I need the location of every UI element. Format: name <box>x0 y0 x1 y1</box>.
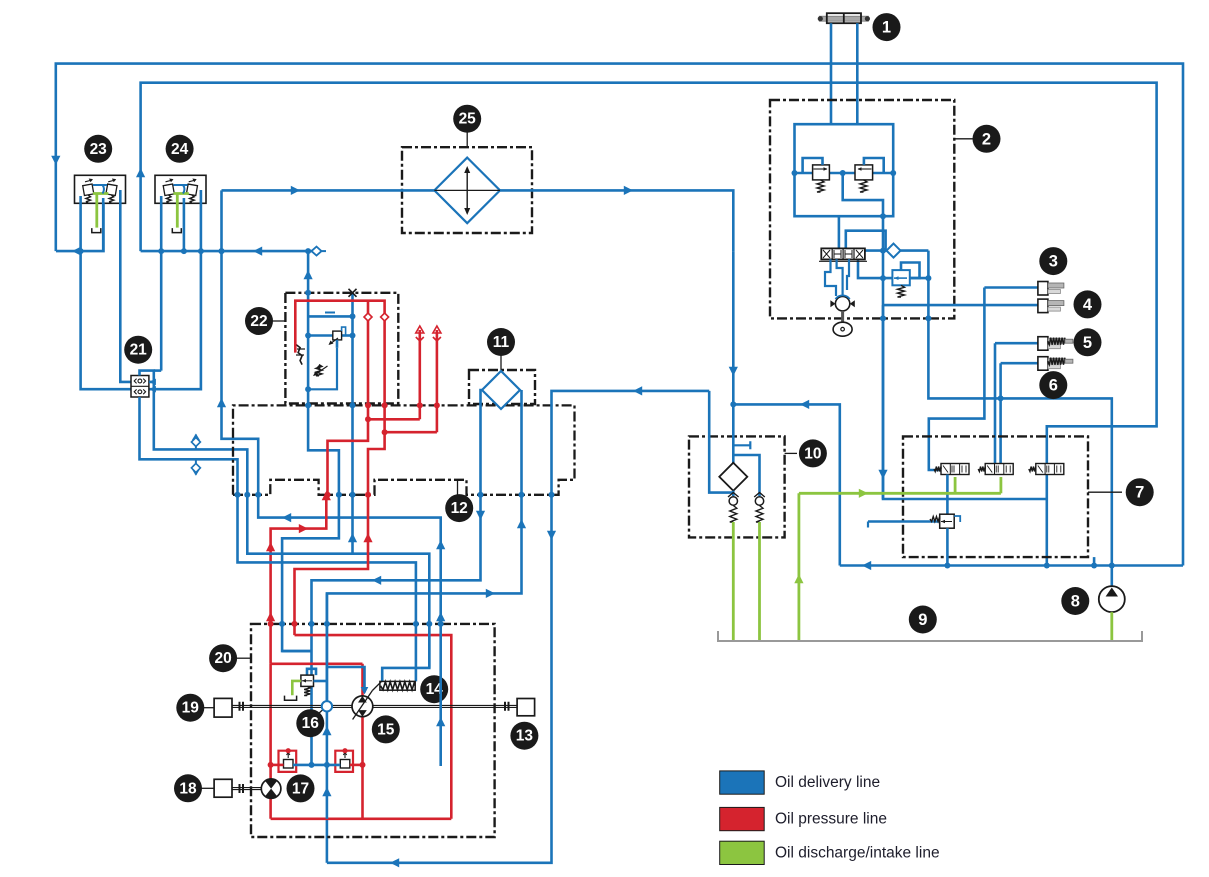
wire green riser B <box>1000 477 1003 493</box>
wire cyl1 right line <box>856 23 859 124</box>
label 8 <box>1061 587 1089 615</box>
junction relief17 red <box>268 762 274 768</box>
wire box22 red main <box>295 301 384 406</box>
wire filter25 line <box>222 190 734 251</box>
svg-text:24: 24 <box>171 141 189 158</box>
counterbalance valve 23 <box>75 175 126 203</box>
junction manifold red <box>365 402 371 408</box>
junction block20 edge red <box>268 621 274 627</box>
wire H4 <box>247 495 429 682</box>
orifice block 21 <box>131 376 149 398</box>
tank 9 bracket <box>718 631 1142 641</box>
wire red box divider <box>361 664 364 819</box>
wire box22 valve line <box>308 334 333 337</box>
wire relief17 blue <box>293 764 340 767</box>
svg-text:23: 23 <box>90 141 108 158</box>
arrow bottom return <box>862 561 871 570</box>
wire 23 left <box>81 196 131 389</box>
wire relief17 red L <box>271 764 284 767</box>
junction pilot bus <box>78 248 84 254</box>
steering swivel joint <box>835 297 849 311</box>
arrow box22 supply <box>348 533 357 542</box>
wire bus lower <box>326 712 329 765</box>
arrow pilot bus right <box>253 247 262 256</box>
enclosure box 22 <box>285 293 398 404</box>
coupler port end <box>312 247 322 256</box>
label 9 <box>909 606 937 634</box>
gear pump 17 <box>261 779 281 799</box>
sensor cylinder 5 <box>1038 337 1048 351</box>
arrow test line <box>217 398 226 407</box>
wire green main <box>799 492 1001 495</box>
wire box22 loop <box>336 340 339 348</box>
relief valve 17b <box>335 751 353 772</box>
wire box10 stem <box>732 491 735 496</box>
junction right drop <box>925 275 931 281</box>
wire pump8 suction <box>1110 612 1113 640</box>
tank16 green <box>292 681 301 695</box>
wire block21 bottom <box>140 397 238 495</box>
wire box22 valve right <box>342 334 353 337</box>
wire pilot bus left <box>56 203 104 251</box>
reducing valve box2-right <box>855 165 873 180</box>
junction relief17 blue <box>309 762 315 768</box>
wire 23 mid <box>102 198 105 251</box>
svg-text:9: 9 <box>918 611 927 629</box>
label 2 <box>954 138 973 140</box>
gauge circle 16 <box>322 701 332 711</box>
legend delivery swatch <box>720 771 765 794</box>
wire cyl3 drop <box>929 288 985 471</box>
label 10 <box>785 452 797 454</box>
label 21 <box>124 336 152 364</box>
axle box 13 <box>517 699 535 716</box>
wire box22 right vert <box>351 293 354 406</box>
wire relief feed <box>858 259 892 278</box>
arrow bus to box22 <box>304 270 313 279</box>
wire H3 <box>282 495 339 651</box>
wire H2 red <box>271 495 327 664</box>
wire test line down <box>222 190 259 494</box>
wire H1 inside <box>439 624 442 766</box>
wire relief out <box>910 277 929 280</box>
wire relief7 drop <box>946 528 949 565</box>
arrow breather <box>729 367 738 376</box>
svg-text:Oil discharge/intake line: Oil discharge/intake line <box>775 844 940 861</box>
junction box22 vert <box>305 290 311 296</box>
filler plug box10 <box>733 441 750 449</box>
plug X box22 <box>349 289 357 297</box>
label 25 <box>466 133 468 148</box>
svg-text:Oil pressure line: Oil pressure line <box>775 811 887 828</box>
check valve tank R <box>755 497 763 505</box>
svg-text:21: 21 <box>130 342 148 359</box>
label 7 <box>1088 491 1122 493</box>
label 19 <box>204 707 214 709</box>
wire box2 loop lower <box>795 173 894 216</box>
wire blue bus <box>326 593 329 701</box>
wire 24left to loop <box>154 369 161 372</box>
shaft 18 <box>232 788 261 790</box>
sensor cylinder 6 <box>1038 357 1048 371</box>
junction block20 edge <box>279 621 285 627</box>
wire red box top <box>271 662 363 665</box>
wire box7 stub <box>1093 557 1096 565</box>
wire spool outputs 3 <box>847 259 849 290</box>
arrow main return <box>633 386 642 395</box>
wire cyl4 drop <box>882 305 885 499</box>
enclosure box 11 <box>469 370 535 404</box>
check valve tank L <box>729 497 737 505</box>
pressure valve box22 <box>333 331 342 340</box>
junction test line <box>219 248 225 254</box>
actuator cylinder 1 <box>819 16 868 21</box>
arrow pilot bus left <box>72 247 81 256</box>
measuring diamond r1 <box>364 313 372 321</box>
relief valve 17a <box>279 751 297 772</box>
wire drain green R <box>758 522 761 640</box>
svg-text:4: 4 <box>1083 296 1093 314</box>
wire box2 mid feed <box>843 173 1047 499</box>
engine box 18 <box>214 779 232 797</box>
wire cyl1 left line <box>830 23 833 124</box>
shaft line <box>232 705 517 707</box>
wire spool outputs <box>825 259 836 296</box>
label 16 <box>318 710 323 714</box>
pilot valve B box7 <box>985 464 1013 475</box>
charge pump 8 <box>1099 586 1125 612</box>
wire pilot bus right <box>141 250 317 253</box>
strainer diamond box10 <box>719 463 747 491</box>
wire spool to check <box>846 231 886 251</box>
wire block21 top loop <box>140 371 154 382</box>
svg-text:22: 22 <box>250 313 267 330</box>
wire bottom return <box>840 564 1183 567</box>
wire to cyl 5 <box>995 342 1038 345</box>
junction manifold top <box>305 402 311 408</box>
check valve box2 <box>887 244 901 258</box>
label 24 <box>166 135 194 163</box>
label 23 <box>84 135 112 163</box>
wire box2 valve line <box>795 172 894 175</box>
wire 24 right <box>149 190 201 389</box>
arrow inner loop up <box>136 168 145 177</box>
wire red riser 2 <box>436 330 439 432</box>
reducing valve box2-left <box>813 165 830 180</box>
wire 24 left <box>160 196 163 371</box>
wire valve16 loop <box>307 669 316 675</box>
svg-text:25: 25 <box>459 111 477 128</box>
counterbalance valve 24 <box>155 175 206 203</box>
arrow H2 <box>322 491 331 500</box>
wire return into block20 <box>326 819 329 863</box>
svg-text:7: 7 <box>1135 484 1144 502</box>
wire pump supply <box>327 667 365 693</box>
junction bottom return <box>1044 563 1050 569</box>
svg-text:Oil delivery line: Oil delivery line <box>775 774 880 791</box>
svg-text:19: 19 <box>182 700 200 717</box>
label 17 <box>287 774 315 802</box>
wire main return <box>327 391 709 863</box>
wire H6 <box>327 495 522 702</box>
arrow filter25 line <box>291 186 300 195</box>
wire to cyl 3 <box>984 286 1038 289</box>
pilot valve A box7 <box>941 464 969 475</box>
legend pressure swatch <box>720 807 765 830</box>
wire to cyl 6 <box>1001 362 1038 365</box>
svg-text:11: 11 <box>493 334 510 351</box>
wire relief7 line <box>868 520 940 523</box>
wire manifold red B <box>368 405 385 494</box>
arrow H5 <box>476 511 485 520</box>
measuring point r2 <box>433 326 441 333</box>
svg-text:13: 13 <box>516 728 534 745</box>
junction pocket3 <box>478 492 484 498</box>
wire manifold blue B <box>351 405 354 494</box>
label 15 <box>372 715 400 743</box>
label 11 <box>500 356 502 371</box>
wire pilot v2 <box>864 158 884 173</box>
enclosure box 25 <box>402 147 532 233</box>
wire drain green mid <box>798 493 801 640</box>
arrow drain mid <box>794 574 803 583</box>
wire to cyl 4 <box>883 304 1038 307</box>
wire manifold red jog1 <box>368 418 420 421</box>
svg-text:18: 18 <box>179 780 197 797</box>
junction box2 valve line <box>792 170 798 176</box>
label 6 <box>1039 371 1067 399</box>
wire outer delivery loop <box>56 64 1183 566</box>
relief valve box2 <box>892 270 909 285</box>
wire H4 tail <box>428 624 431 668</box>
wire box2 right drop <box>928 251 1111 586</box>
directional spool valve box2 <box>821 248 865 259</box>
wire manifold red jog2 <box>385 431 437 434</box>
wire filter11 left <box>481 390 483 495</box>
label 14 <box>420 675 448 703</box>
wire cyl5 drop <box>994 343 997 464</box>
measuring point r1 <box>416 326 424 333</box>
wire H4b <box>238 495 416 682</box>
wire box10 right branch <box>733 455 759 496</box>
junction box2 mid <box>880 213 886 219</box>
svg-text:20: 20 <box>214 650 231 667</box>
wire box22 red left drop <box>367 302 370 405</box>
wire breather main <box>732 251 735 466</box>
label 12 <box>457 481 459 495</box>
label 22 <box>273 320 286 322</box>
legend discharge swatch <box>720 841 765 864</box>
wire green riser A <box>954 477 957 493</box>
enclosure box 10 <box>689 436 785 537</box>
svg-text:10: 10 <box>804 445 821 462</box>
svg-text:17: 17 <box>292 780 309 797</box>
wire relief pilot loop <box>901 263 920 279</box>
wire manifold blue A <box>308 405 339 494</box>
wire manifold red A <box>328 405 369 494</box>
junction pocket2 red <box>325 492 331 498</box>
label 1 <box>873 13 901 41</box>
svg-text:16: 16 <box>302 715 320 732</box>
coupling 18 <box>240 784 244 793</box>
wire box22 supply down <box>351 495 354 554</box>
svg-text:15: 15 <box>377 721 395 738</box>
label 3 <box>1039 247 1067 275</box>
junction box22 right vert <box>350 313 356 319</box>
pilot valve C box7 <box>1036 464 1064 475</box>
wire drain green L <box>732 522 735 640</box>
coupling 19 <box>240 702 244 711</box>
coupling 13 <box>505 702 509 711</box>
junction pocket2 blue <box>336 492 342 498</box>
wire bus exit <box>326 765 329 819</box>
wire red return <box>295 495 369 635</box>
label 13 <box>510 722 538 750</box>
svg-text:3: 3 <box>1049 253 1058 271</box>
wire H5 <box>312 495 481 765</box>
wire H1 <box>258 495 441 624</box>
enclosure box 2 <box>770 100 954 318</box>
svg-text:2: 2 <box>982 130 991 148</box>
svg-text:1: 1 <box>882 19 891 37</box>
arrow bus exit <box>322 787 331 796</box>
wire block21 right down <box>154 382 248 495</box>
filter 25 diamond <box>434 158 500 224</box>
arrow green main <box>859 489 868 498</box>
manifold block 12 <box>233 405 575 494</box>
label 20 <box>237 657 251 659</box>
wire cyl6 drop <box>999 363 1002 464</box>
wire check line <box>863 249 928 252</box>
wire red box left <box>269 664 272 819</box>
svg-text:6: 6 <box>1049 377 1058 395</box>
arrow return riser <box>800 400 809 409</box>
wire spool feed <box>838 216 841 249</box>
wire red box right <box>295 635 452 819</box>
main pump 15 <box>352 696 373 717</box>
svg-text:12: 12 <box>451 500 468 517</box>
engine box 19 <box>214 698 232 717</box>
measuring diamond r2 <box>381 313 389 321</box>
needle sensor box22 <box>296 345 302 365</box>
arrow pump supply <box>361 687 369 695</box>
wire valve16 out <box>314 680 327 683</box>
svg-text:8: 8 <box>1071 593 1080 611</box>
svg-text:5: 5 <box>1083 334 1092 352</box>
enclosure box 20 <box>251 624 495 837</box>
arrow bus lower <box>322 726 331 735</box>
wire inner delivery loop <box>141 83 1157 566</box>
port plug box7 <box>867 522 869 528</box>
arrow into block21 <box>149 386 156 393</box>
wire bus to box22 <box>307 251 310 293</box>
servo spring 14 <box>380 681 415 690</box>
wire box22 loop2 <box>308 348 337 390</box>
wire blk20 feed16 <box>282 650 311 653</box>
wire pilot v1 <box>803 158 823 173</box>
arrow box2 drop <box>878 470 887 479</box>
sensor cylinder 3 <box>1038 282 1048 296</box>
quick coupler upper <box>195 435 197 450</box>
filter 11 diamond <box>482 371 520 409</box>
sensor cylinder 4 <box>1038 299 1048 313</box>
spring arrow box22 <box>316 365 322 376</box>
quick coupler lower <box>195 459 197 474</box>
arrow block21 loop <box>149 379 156 386</box>
wire filter11 right <box>520 390 523 495</box>
relief valve box7 <box>940 514 955 528</box>
wire relief17 red R <box>350 764 363 767</box>
arrow H6 <box>517 519 526 528</box>
arrow H1 inside <box>436 717 445 726</box>
label 18 <box>202 787 215 789</box>
wire 23 right <box>120 190 131 382</box>
wire 24 mid <box>183 198 186 251</box>
wire red box bottom <box>271 817 452 820</box>
wire box10 left bypass <box>709 391 733 493</box>
wire box22 main vert <box>307 293 310 406</box>
wire return riser <box>733 404 840 565</box>
steering wheel <box>841 311 844 322</box>
charge relief valve 16 <box>301 675 314 686</box>
label 4 <box>1074 290 1102 318</box>
wire valveA drain <box>946 475 949 516</box>
arrow H1 <box>282 513 291 522</box>
enclosure box 7 <box>903 436 1088 557</box>
wire box2 loop <box>795 124 894 173</box>
wire box22 orifice line <box>308 315 352 318</box>
label 5 <box>1074 328 1102 356</box>
junction pocket1 <box>235 492 241 498</box>
arrow red return <box>363 533 372 542</box>
wire red riser 1 <box>418 330 421 419</box>
wire spool outputs 2 <box>837 259 843 296</box>
junction breather <box>730 401 736 407</box>
orifice notch box22 <box>325 312 335 314</box>
arrow outer loop down <box>51 156 60 165</box>
